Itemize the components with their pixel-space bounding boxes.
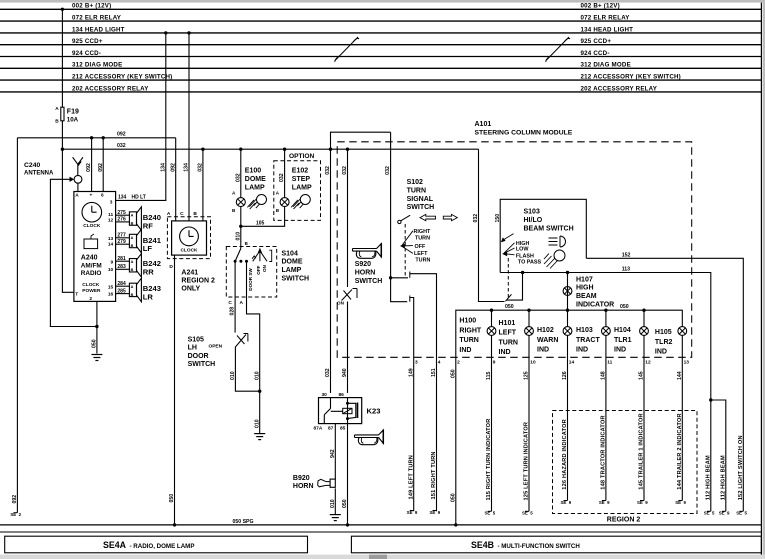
node S105 output junction [258,390,261,393]
svg-text:050 SPG: 050 SPG [233,519,254,525]
radio A240 AM/FM box [74,192,116,302]
OPTION dashed box [274,153,321,220]
svg-text:9: 9 [111,259,114,265]
svg-text:RIGHT: RIGHT [414,229,431,235]
wire 942 relay to horn B920 [330,424,336,480]
svg-text:113: 113 [622,266,630,272]
speaker B242 RR [129,254,161,277]
svg-text:11: 11 [607,359,612,365]
svg-text:30: 30 [322,392,328,398]
svg-text:134 HEAD LIGHT: 134 HEAD LIGHT [72,26,125,33]
svg-text:REGION 2: REGION 2 [607,516,641,523]
wire 115 RIGHT TURN INDICATOR [484,335,495,515]
title bar SE4A [5,536,308,553]
svg-text:032: 032 [325,166,331,175]
svg-text:DOME: DOME [245,176,266,183]
svg-text:SE: SE [637,500,643,505]
svg-text:148 TRACTOR INDICATOR: 148 TRACTOR INDICATOR [601,415,607,489]
node 032 / S102 bypass [329,148,332,151]
svg-text:TURN: TURN [459,337,478,344]
svg-text:281: 281 [117,256,126,262]
svg-text:DOME: DOME [282,259,303,266]
svg-text:050: 050 [169,494,175,503]
svg-text:028: 028 [230,307,236,316]
horn B920 [293,475,335,490]
svg-text:SWITCH: SWITCH [355,278,383,285]
svg-text:T: T [75,291,78,297]
svg-text:092: 092 [86,163,92,172]
svg-text:REGION 2: REGION 2 [181,278,215,285]
node 032 at fuse wire [61,148,64,151]
svg-text:STEERING COLUMN MODULE: STEERING COLUMN MODULE [475,129,573,136]
relay K23 internals [324,398,357,424]
svg-text:OPTION: OPTION [289,153,315,160]
antenna C240 [24,157,83,183]
svg-text:BEAM: BEAM [576,293,597,300]
svg-text:D: D [169,264,173,270]
wire 032 to step lamp E102 [279,149,285,198]
text 134 HD LT [118,194,146,200]
svg-text:TLR2: TLR2 [655,339,673,346]
svg-text:10: 10 [530,359,536,365]
svg-text:126: 126 [562,371,568,380]
svg-text:284: 284 [117,281,126,287]
wire 032 to beam switch common [473,149,504,301]
svg-text:2: 2 [89,296,92,302]
pin 2 [457,359,460,365]
node 092/radio + [90,136,93,139]
text S920 HORN SWITCH [355,261,383,285]
wire 092 left drop to SE2 [10,138,21,517]
svg-text:CLOCK: CLOCK [82,282,100,288]
wire 092 to clock A241 pin A [170,138,176,221]
pin 3 [415,359,418,365]
svg-text:126 HAZARD INDICATOR: 126 HAZARD INDICATOR [562,419,568,490]
node A241 ground junction [173,523,176,526]
lamp H105 [655,327,687,356]
svg-text:002 B+ (12V): 002 B+ (12V) [581,3,620,10]
turn signal positions [400,229,431,263]
wire 028 S104 pin C to door switch S105 [230,261,236,332]
wire 032 horizontal [62,143,478,149]
wire 144 TRAILER 2 INDICATOR [675,335,689,505]
bus line 924 CCD- [0,50,761,57]
svg-text:285: 285 [117,288,126,294]
lamp H107 high beam indicator [563,276,614,308]
svg-text:A: A [167,211,171,217]
wire 092 to radio pin + [86,138,92,192]
svg-text:9: 9 [493,359,496,365]
svg-text:LAMP: LAMP [292,185,312,192]
node head light bus tap 2 [187,31,190,34]
node junction B+ / F19 [61,8,64,11]
svg-text:B: B [193,211,197,217]
svg-text:2: 2 [457,359,460,365]
svg-text:- MULTI-FUNCTION SWITCH: - MULTI-FUNCTION SWITCH [498,543,581,550]
dome lamp E100 [232,168,266,213]
svg-text:LAMP: LAMP [282,267,302,274]
svg-text:E102: E102 [292,168,308,175]
svg-text:925 CCD+: 925 CCD+ [72,38,103,45]
svg-text:CLOCK: CLOCK [180,248,198,254]
ground door switch [254,434,265,440]
svg-text:14: 14 [108,241,114,247]
svg-text:TURN: TURN [415,258,430,264]
wire 150 / beam switch outline [495,199,587,272]
svg-text:010: 010 [254,371,260,380]
svg-text:TURN: TURN [407,187,426,194]
svg-text:10A: 10A [67,116,79,123]
svg-text:A: A [131,285,134,289]
svg-text:13: 13 [108,236,114,242]
svg-text:FLASH: FLASH [516,253,534,259]
svg-text:010: 010 [230,371,236,380]
svg-text:212 ACCESSORY (KEY SWITCH): 212 ACCESSORY (KEY SWITCH) [581,74,681,81]
svg-text:134 HEAD LIGHT: 134 HEAD LIGHT [581,26,634,33]
bus line 134 HEAD LIGHT [0,26,761,33]
svg-text:134: 134 [160,163,166,172]
svg-text:SWITCH: SWITCH [407,204,435,211]
svg-text:151: 151 [431,368,437,377]
svg-text:A: A [75,193,79,199]
wire 032 to horn switch S920 [342,149,348,287]
door switch S105 [209,334,248,350]
svg-text:B: B [131,293,134,297]
svg-text:002 B+ (12V): 002 B+ (12V) [72,3,111,10]
wire 032 bypass over module to turn signal switch [331,132,392,175]
horn icon S920 [353,243,382,258]
svg-text:A101: A101 [475,121,492,128]
svg-text:4: 4 [438,359,441,365]
dome lamp E100 light icon [247,195,266,210]
svg-text:202 ACCESSORY RELAY: 202 ACCESSORY RELAY [72,85,149,92]
svg-text:092: 092 [170,163,176,172]
svg-text:SE4B: SE4B [471,540,494,550]
page right border [760,3,762,555]
wire 010 S105 to junction [230,347,260,392]
horn icon below relay [355,430,384,445]
wire 105 lamp returns [241,207,285,227]
svg-text:032: 032 [117,143,126,149]
svg-text:WARN: WARN [537,337,558,344]
svg-text:LH: LH [188,345,197,352]
bus line 925 CCD+ [0,38,761,45]
svg-text:S102: S102 [407,179,423,186]
wire 151 labels [429,368,440,515]
svg-text:277: 277 [117,233,126,239]
svg-text:LEFT: LEFT [414,251,428,257]
svg-text:ON: ON [262,264,267,272]
svg-text:15: 15 [108,284,114,290]
svg-text:SE: SE [675,500,681,505]
lamp H104 [614,327,648,354]
svg-text:ONLY: ONLY [181,286,200,293]
svg-text:SE4A: SE4A [103,540,127,550]
svg-text:145: 145 [639,371,645,380]
wire to door switch ground [254,391,260,433]
dome lamp switch S104 [228,241,271,306]
svg-text:279: 279 [117,239,126,245]
svg-text:092: 092 [12,495,18,504]
svg-text:SE: SE [736,511,742,516]
ground radio [91,355,102,361]
wire 275 radio to speaker B240 [116,210,130,216]
turn signal linkage dashed [404,224,406,278]
svg-text:RF: RF [143,222,153,231]
svg-text:SE: SE [10,512,16,517]
wire 279 radio to speaker B241 [116,239,130,245]
svg-text:SWITCH: SWITCH [282,276,310,283]
wire antenna shield to radio ground [50,179,97,326]
svg-text:IND: IND [537,347,549,354]
svg-text:H102: H102 [537,327,554,334]
svg-text:IND: IND [655,349,667,356]
wire 032 to dome lamp E100 [235,149,241,198]
svg-text:032: 032 [235,173,241,182]
svg-text:B920: B920 [293,475,310,482]
svg-text:12: 12 [645,359,651,365]
svg-text:112 HIGH BEAM: 112 HIGH BEAM [720,455,726,500]
speaker B241 LF [129,229,161,253]
wire H100 lamp top [491,310,493,326]
frame bottom line [0,531,761,533]
svg-text:11: 11 [108,212,113,218]
lamp H101 [499,320,534,356]
svg-text:C: C [180,211,184,217]
ground horn B920 [330,515,341,521]
wire antenna to radio pin A [77,183,79,191]
svg-text:H103: H103 [576,327,593,334]
beam switch blade [505,273,522,302]
svg-text:152: 152 [622,252,631,258]
svg-text:LF: LF [143,244,153,253]
svg-text:SE: SE [429,510,435,515]
svg-text:INDICATOR: INDICATOR [576,302,614,309]
node radio ground junction [95,325,98,328]
svg-text:AM/FM: AM/FM [81,262,102,269]
wire horn B920 to ground [330,488,336,514]
svg-text:A241: A241 [181,270,198,277]
svg-text:RADIO: RADIO [81,270,102,277]
beam switch linkage dashed [507,258,509,298]
svg-text:+: + [90,194,93,199]
wire 281 radio to speaker B242 [116,256,130,262]
node 050 / H101 [527,309,530,312]
svg-text:14: 14 [569,359,575,365]
svg-text:LAMP: LAMP [245,185,265,192]
text A241 REGION 2 ONLY [181,270,215,293]
svg-text:RIGHT: RIGHT [459,327,482,334]
svg-text:032: 032 [473,214,479,223]
svg-text:SE: SE [484,511,490,516]
wire 152 light switch on [586,252,743,511]
wire 112 high beam branch [711,400,726,511]
svg-text:13: 13 [684,359,690,365]
svg-text:C240: C240 [24,162,40,169]
text S105 LH DOOR SWITCH [188,337,216,369]
svg-text:IND: IND [576,347,588,354]
svg-text:85: 85 [340,425,346,431]
svg-text:IND: IND [459,347,471,354]
svg-text:HI/LO: HI/LO [524,217,543,224]
svg-text:A: A [131,236,134,240]
svg-text:86: 86 [339,392,345,398]
module A101 dashed box [337,142,692,357]
svg-text:050: 050 [342,499,348,508]
svg-text:148: 148 [601,371,607,380]
node 113 / beam blade [521,271,524,274]
wire to right turn contact [391,272,410,278]
svg-text:050: 050 [450,369,456,378]
svg-text:SIGNAL: SIGNAL [407,196,434,203]
svg-text:TURN: TURN [499,339,518,346]
step lamp E102 [276,168,312,213]
svg-text:940: 940 [342,368,348,377]
bus line 212 ACCESSORY (KEY SWITCH) [0,74,761,81]
wire turn signal pole [391,132,408,302]
svg-text:010: 010 [235,232,241,241]
svg-text:072 ELR RELAY: 072 ELR RELAY [581,15,631,22]
svg-text:H105: H105 [655,329,672,336]
wire radio pin 2 to ground [92,301,98,353]
svg-text:IND: IND [499,349,511,356]
bus line 202 ACCESSORY RELAY [0,85,761,92]
svg-text:942: 942 [330,449,336,458]
svg-text:HORN: HORN [355,269,376,276]
svg-text:134: 134 [118,194,127,200]
node head light bus tap 1 [164,31,167,34]
svg-text:DOOR: DOOR [188,353,209,360]
wire 092 to radio pin 6 [98,138,104,192]
svg-text:C: C [228,300,232,306]
title bar SE4B [351,536,761,553]
REGION 2 dashed box [553,411,698,524]
wire 152 labels [736,435,747,515]
svg-text:312 DIAG MODE: 312 DIAG MODE [581,62,631,69]
svg-text:6: 6 [101,192,104,198]
svg-text:275: 275 [117,210,126,216]
node 112 branch [709,398,712,401]
svg-text:HORN: HORN [293,483,314,490]
node 050 / H102 [566,309,569,312]
svg-text:152 LIGHT SWITCH ON: 152 LIGHT SWITCH ON [738,435,744,500]
svg-text:HD LT: HD LT [132,194,146,200]
svg-text:POWER: POWER [82,288,101,294]
text S103 HI/LO BEAM SWITCH [524,209,574,233]
wire from fuse F19 to radio pin T [62,121,74,292]
svg-text:IND: IND [614,347,626,354]
svg-text:032: 032 [279,173,285,182]
node turn signal branch [389,276,392,279]
fuse F19 10A [55,106,79,125]
svg-text:A: A [240,300,244,306]
svg-text:925 CCD+: 925 CCD+ [581,38,612,45]
wire 113 high beam [500,266,711,511]
wire 125 LEFT TURN INDICATOR [522,335,536,515]
svg-text:924 CCD-: 924 CCD- [72,50,101,57]
node 032 / A241 pin B [201,148,204,151]
svg-text:115 RIGHT TURN INDICATOR: 115 RIGHT TURN INDICATOR [486,419,492,501]
svg-text:312 DIAG MODE: 312 DIAG MODE [72,62,122,69]
svg-text:SE: SE [599,500,605,505]
svg-text:A: A [55,106,59,112]
wire 284 radio to speaker B243 [116,281,130,287]
horn switch S920 contact [337,289,357,306]
svg-text:87A: 87A [314,425,323,431]
wire 134 to radio pin 3 [116,33,167,201]
svg-text:H107: H107 [576,276,593,283]
clock A241 box [167,211,207,270]
bus line 312 DIAG MODE [0,62,761,69]
wire 050 A241 pin D to SPG [169,255,175,525]
svg-text:SE: SE [407,510,413,515]
svg-text:010: 010 [330,499,336,508]
node 032 / step lamp [283,148,286,151]
svg-text:HIGH: HIGH [576,285,594,292]
wire 112 labels left [704,455,715,516]
svg-text:RR: RR [143,268,154,277]
svg-text:276: 276 [117,217,126,223]
svg-text:125 LEFT TURN INDICATOR: 125 LEFT TURN INDICATOR [524,422,530,501]
radio display icon [84,234,98,249]
svg-text:TRACT: TRACT [576,337,600,344]
svg-text:LR: LR [143,293,154,302]
wire 010 S104 pin A to ground [247,261,261,391]
svg-text:CLOCK: CLOCK [83,223,101,229]
svg-text:125: 125 [524,371,530,380]
wire H104 lamp top [643,310,645,326]
wire 149 labels [407,368,418,515]
svg-text:134: 134 [184,163,190,172]
svg-text:050: 050 [450,493,456,502]
bus line 002 B+ (12V) [0,3,761,10]
svg-text:S103: S103 [524,209,540,216]
node 050 / H103 [604,309,607,312]
node 032 / horn coil feed [346,148,349,151]
wire 149 left turn [410,296,414,512]
svg-text:144: 144 [677,371,683,380]
wire 050 relay pin 85 to SPG [342,424,348,525]
svg-text:B: B [245,241,248,246]
svg-text:OFF: OFF [256,265,261,274]
node 050 ground junction [454,523,457,526]
wire 126 HAZARD INDICATOR [560,335,574,505]
svg-text:B: B [55,119,59,125]
svg-text:112 HIGH BEAM: 112 HIGH BEAM [705,455,711,500]
svg-text:ANTENNA: ANTENNA [24,171,54,177]
turn signal arrows [420,214,457,220]
wire 050 indicator common [450,304,682,525]
bus line 072 ELR RELAY [0,15,761,22]
lamp H100 [459,318,496,354]
svg-text:K23: K23 [367,407,381,416]
svg-text:S105: S105 [188,337,204,344]
svg-text:092: 092 [117,132,126,138]
clock A241 dashed outline [167,217,210,259]
svg-text:10: 10 [108,267,114,273]
wire 277 radio to speaker B241 [116,233,130,239]
high beam icon [549,236,566,247]
svg-text:OFF: OFF [415,244,426,250]
speaker B243 LR [129,278,161,302]
svg-text:F19: F19 [67,108,79,115]
wire 002 from B+ bus to fuse F19 [61,9,63,107]
svg-text:TO PASS: TO PASS [518,260,542,266]
dome lamp switch S104 dashed box [226,247,276,298]
svg-text:032: 032 [342,166,348,175]
svg-text:010: 010 [254,419,260,428]
svg-text:115: 115 [486,372,492,380]
